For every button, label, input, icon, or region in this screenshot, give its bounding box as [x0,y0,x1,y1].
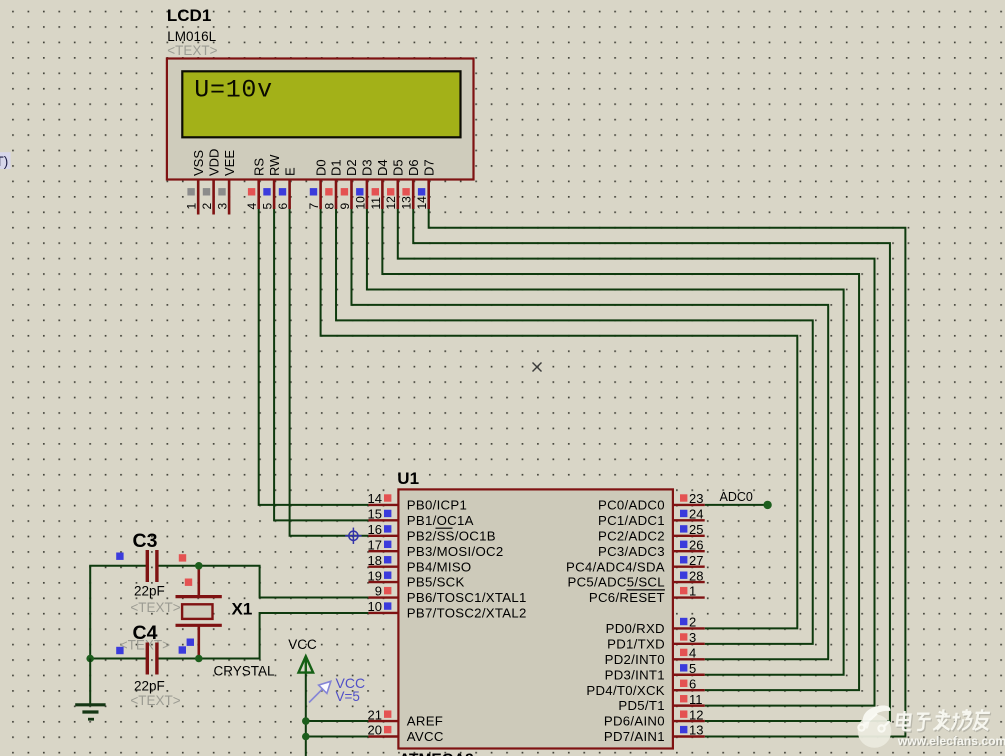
wire: left rail (C3/C4 common to ground) [89,566,91,659]
U1 body [398,489,673,748]
junction: ground node on rail [86,655,94,663]
svg-text:AREF: AREF [407,714,443,729]
U1 pin stubs [368,505,704,737]
svg-text:4: 4 [245,203,259,210]
svg-text:20: 20 [368,723,382,738]
svg-text:8: 8 [322,203,336,210]
partial label (cut off at left edge) [0,152,11,169]
svg-text:D5: D5 [391,159,406,176]
U1 left pin numbers and state squares [368,491,392,738]
svg-text:ATMEGA8: ATMEGA8 [399,752,474,756]
svg-text:22pF: 22pF [134,584,165,599]
watermark text 电子发烧友 (stylized) [896,709,991,731]
watermark logo circle [858,705,892,747]
svg-text:14: 14 [415,196,429,210]
svg-text:VEE: VEE [222,150,237,176]
junction: C4 / X1 bottom node [195,655,203,663]
svg-text:18: 18 [368,553,382,568]
svg-text:PB4/MISO: PB4/MISO [407,559,472,574]
svg-text:PC1/ADC1: PC1/ADC1 [598,513,665,528]
svg-text:12: 12 [689,707,703,722]
svg-text:PC3/ADC3: PC3/ADC3 [598,544,665,559]
svg-text:X1: X1 [232,600,253,619]
svg-text:12: 12 [384,196,398,210]
svg-text:9: 9 [338,203,352,210]
svg-text:14: 14 [368,491,382,506]
U1 PB2 SS overline [436,527,453,529]
svg-text:2: 2 [689,615,696,630]
svg-text:<TEXT>: <TEXT> [130,693,180,708]
svg-text:PD4/T0/XCK: PD4/T0/XCK [586,683,665,698]
svg-text:D7: D7 [421,159,436,176]
svg-text:17: 17 [368,537,382,552]
wire: VCC to U1 AVCC [306,736,369,738]
svg-text:U1: U1 [397,469,419,488]
wire: C4 right / X1 bottom to U1 PB7 (XTAL2) [157,613,369,659]
svg-text:<TEXT>: <TEXT> [167,43,217,58]
svg-text:C3: C3 [133,530,158,552]
wire: X1 top lead [198,566,201,597]
svg-text:PC6/RESET: PC6/RESET [589,590,665,605]
capacitor C3 plates [147,550,157,582]
svg-text:PD1/TXD: PD1/TXD [607,636,665,651]
LCD1 pin names (rotated) [191,149,437,176]
wire: C3 right / X1 top to U1 PB6 (XTAL1) [157,566,369,598]
crystal X1 electrode bars [176,597,222,626]
svg-text:PC2/ADC2: PC2/ADC2 [598,528,665,543]
LCD1 pin stubs [198,179,429,215]
svg-text:D4: D4 [375,159,390,176]
svg-text:7: 7 [307,203,321,210]
svg-text:CRYSTAL: CRYSTAL [214,664,276,679]
junction: VCC/AVCC [302,733,310,741]
svg-text:PC4/ADC4/SDA: PC4/ADC4/SDA [566,559,665,574]
svg-text:11: 11 [369,197,383,210]
svg-text:D1: D1 [329,159,344,176]
svg-text:VDD: VDD [206,149,221,176]
U1 right pin numbers and state squares [680,491,703,738]
wire: VCC rail down to AREF/AVCC [305,672,307,756]
svg-text:3: 3 [216,203,230,210]
svg-text:RW: RW [267,154,282,176]
svg-text:11: 11 [689,692,703,707]
U1 RESET overline [627,589,665,591]
watermark url www.elecfans.com [897,734,1005,749]
LCD1 body [167,59,474,180]
svg-text:PD6/AIN0: PD6/AIN0 [604,714,665,729]
LCD1 pin numbers and state squares [185,188,430,209]
svg-text:D0: D0 [313,159,328,176]
svg-text:PB1/OC1A: PB1/OC1A [407,513,474,528]
wire: LCD1 D5 (pin 12) to U1 PD5 [398,206,875,706]
svg-text:LM016L: LM016L [167,29,216,44]
wire: VCC to U1 AREF [306,720,369,722]
wire: LCD1 D7 (pin 14) to U1 PD7 [429,206,906,737]
svg-text:PB5/SCK: PB5/SCK [407,575,465,590]
svg-text:13: 13 [689,723,703,738]
svg-text:21: 21 [368,707,382,722]
C4 pin state squares [116,639,194,655]
wire: LCD1 D3 (pin 10) to U1 PD3 [367,206,844,675]
svg-text:1: 1 [185,203,199,210]
svg-text:E: E [282,167,297,176]
svg-text:13: 13 [400,196,414,210]
svg-text:PC5/ADC5/SCL: PC5/ADC5/SCL [567,575,664,590]
svg-text:PD3/INT1: PD3/INT1 [605,667,665,682]
svg-text:27: 27 [689,553,703,568]
svg-text:15: 15 [368,507,382,522]
svg-text:PD5/T1: PD5/T1 [618,698,665,713]
svg-text:9: 9 [375,584,382,599]
junction: C3 / X1 top node [195,562,203,570]
svg-text:23: 23 [689,491,703,506]
X1 top pin state square [185,579,192,586]
svg-text:D2: D2 [344,159,359,176]
svg-text:PD2/INT0: PD2/INT0 [605,652,665,667]
wire: LCD1 D2 (pin 9) to U1 PD2 [351,206,828,659]
svg-text:24: 24 [689,507,703,522]
ground symbol [75,659,105,720]
svg-text:10: 10 [368,599,382,614]
svg-text:PB6/TOSC1/XTAL1: PB6/TOSC1/XTAL1 [407,590,527,605]
cursor X marker [533,363,542,372]
U1 right pin names [566,498,665,745]
svg-text:6: 6 [689,676,696,691]
svg-text:5: 5 [261,203,275,210]
wire: LCD1 RW (pin5) to U1 PB1 [274,206,368,520]
svg-text:PB2/SS/OC1B: PB2/SS/OC1B [407,528,496,543]
wire: C4 left to rail [89,658,147,660]
svg-text:6: 6 [276,203,290,210]
origin marker (crosshair) on PB2 wire [345,528,361,544]
svg-text:PD0/RXD: PD0/RXD [606,621,665,636]
svg-text:26: 26 [689,537,703,552]
svg-text:25: 25 [689,522,703,537]
svg-text:RS: RS [251,158,266,176]
svg-text:D3: D3 [360,159,375,176]
svg-text:U=10v: U=10v [194,76,273,105]
svg-text:PC0/ADC0: PC0/ADC0 [598,498,665,513]
svg-text:PD7/AIN1: PD7/AIN1 [604,729,665,744]
svg-text:www.elecfans.com: www.elecfans.com [897,734,1005,748]
junction: VCC/AREF [302,717,310,725]
capacitor C4 plates [147,643,157,675]
wire: LCD1 D6 (pin 13) to U1 PD6 [413,206,890,721]
wire: LCD1 D1 (pin 8) to U1 PD1 [336,206,813,644]
svg-text:1: 1 [689,584,696,599]
svg-text:4: 4 [689,646,696,661]
svg-text:16: 16 [368,522,382,537]
svg-text:VSS: VSS [191,150,206,176]
svg-text:3: 3 [689,630,696,645]
wire: X1 bottom lead [198,626,201,659]
svg-text:10: 10 [353,196,367,210]
wire: C3 left to rail [89,565,147,567]
svg-text:2: 2 [200,203,214,210]
svg-text:LCD1: LCD1 [167,6,211,25]
wire: LCD1 E (pin6) to U1 PB2 [290,206,369,536]
power symbol VCC [288,637,317,673]
svg-text:19: 19 [368,568,382,583]
wire: LCD1 D0 (pin 7) to U1 PD0 [321,206,798,628]
wire: LCD1 RS (pin4) to U1 PB0 [259,206,369,505]
svg-text:<TEXT>: <TEXT> [130,600,180,615]
crystal X1 body [182,604,212,619]
U1 left pin names [407,498,527,745]
svg-text:AVCC: AVCC [407,729,444,744]
svg-text:22pF: 22pF [134,679,165,694]
svg-text:T): T) [0,154,8,169]
svg-text:5: 5 [689,661,696,676]
LCD1 screen [182,71,460,137]
svg-text:<TEXT>: <TEXT> [120,638,170,653]
svg-text:ADC0: ADC0 [720,490,753,504]
svg-text:V=5: V=5 [336,689,360,704]
svg-text:D6: D6 [406,159,421,176]
svg-text:PB3/MOSI/OC2: PB3/MOSI/OC2 [407,544,504,559]
wire: LCD1 D4 (pin 11) to U1 PD4 [382,206,859,690]
svg-text:VCC: VCC [288,637,317,652]
voltage probe VCC V=5 [309,675,365,704]
svg-text:28: 28 [689,568,703,583]
C3 pin state squares [116,553,186,562]
svg-text:PB7/TOSC2/XTAL2: PB7/TOSC2/XTAL2 [407,606,527,621]
svg-text:PB0/ICP1: PB0/ICP1 [407,498,467,513]
wire: U1 PC0/ADC0 net ADC0 [705,501,772,509]
